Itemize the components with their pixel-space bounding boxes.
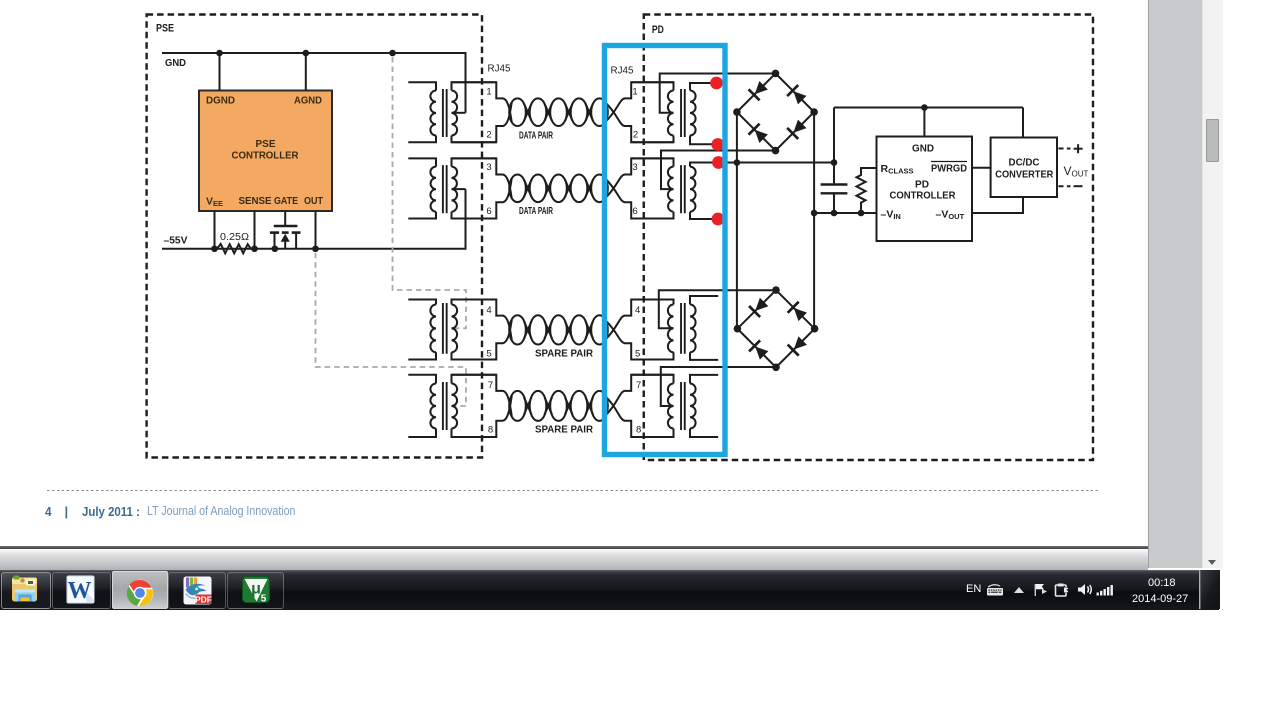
- svg-text:CONVERTER: CONVERTER: [995, 169, 1053, 181]
- bridge corner junctions: [734, 286, 819, 371]
- window bottom silver band: [0, 549, 1148, 570]
- wire BR1 left corner down to BR2 left corner: [736, 112, 738, 329]
- GND rail wire: [162, 53, 466, 113]
- T2 center tap stub: [452, 188, 466, 190]
- power/plug icon: [1054, 583, 1070, 597]
- junction VEE/rail: [211, 245, 218, 252]
- AGND pin wire: [305, 53, 307, 91]
- VEE pin wire: [214, 211, 216, 249]
- transformer T2 (PSE side, pins 3/6): [408, 158, 496, 218]
- svg-text:SENSE: SENSE: [239, 195, 272, 207]
- RJ45 jack PD side pins 1/2: [625, 82, 674, 142]
- diode bridge BR1: [733, 70, 818, 155]
- class resistor Rclass: [857, 168, 877, 213]
- explorer button: [1, 572, 51, 609]
- T1 center tap stub: [452, 112, 466, 114]
- svg-text:6: 6: [486, 206, 491, 217]
- V- output dashes: [1059, 185, 1071, 187]
- PD controller GND pin wire: [923, 108, 925, 137]
- PSE boundary dashed box: [147, 15, 482, 458]
- system tray: [966, 583, 981, 595]
- junction T6 secondary / bridge left rail: [734, 159, 741, 166]
- junction GND/disconnect: [389, 50, 396, 57]
- power tap node red dot pin2: [711, 138, 724, 151]
- RJ45 jack PD side pins 7/8: [625, 375, 674, 437]
- pdf-xchange button: [168, 572, 226, 609]
- -VIN rail wire: [814, 212, 876, 214]
- capacitor C1: [821, 163, 848, 214]
- power tap node red dot pin6: [712, 213, 725, 226]
- svg-text:5: 5: [635, 349, 640, 360]
- DC/DC top pin wire: [1022, 108, 1024, 138]
- svg-text:2: 2: [633, 130, 638, 141]
- svg-text:GND: GND: [912, 144, 934, 155]
- V+ output dashes: [1059, 148, 1071, 150]
- action flag icon: [1033, 583, 1048, 596]
- PSE controller U1: [199, 91, 332, 212]
- wire junction row y162 to capacitor: [737, 162, 834, 164]
- diode top-right: [788, 302, 809, 323]
- diode top-left: [749, 80, 770, 101]
- MOSFET Q1: [270, 226, 301, 249]
- svg-text:7: 7: [488, 380, 493, 391]
- window bottom dark edge: [0, 546, 1148, 549]
- DGND pin wire: [219, 53, 221, 91]
- junction MOSFET/rail: [272, 245, 279, 252]
- gray disconnect path from OUT to spare pair 7/8 center tap: [316, 253, 467, 406]
- twisted data pair (pins 3/6): [503, 175, 625, 203]
- svg-text:DATA PAIR: DATA PAIR: [519, 130, 554, 141]
- keyboard icon: [986, 584, 1004, 596]
- RJ45 jack PSE side pins 7/8: [452, 375, 504, 437]
- svg-text:PD: PD: [652, 24, 664, 36]
- svg-text:6: 6: [632, 206, 637, 217]
- network signal bars: [1096, 584, 1116, 596]
- plus label: [1074, 148, 1083, 150]
- twisted data pair (pins 1/2): [503, 98, 625, 126]
- GND rail to PD controller / DC-DC top wire: [833, 108, 835, 163]
- svg-text:8: 8: [636, 425, 641, 436]
- RJ45 jack PSE side pins 4/5: [452, 300, 504, 360]
- transformer T1 (PSE side, pins 1/2): [408, 82, 496, 142]
- T5 center tap to bridge BR1 + input: [660, 74, 776, 113]
- svg-text:PWRGD: PWRGD: [931, 163, 967, 175]
- scrollbar thumb: [1206, 119, 1220, 162]
- svg-text:DATA PAIR: DATA PAIR: [519, 206, 554, 217]
- PD controller U2: [877, 137, 973, 242]
- svg-text:PDF: PDF: [195, 594, 212, 604]
- T8 center tap to bridge BR2 bottom input: [661, 367, 776, 406]
- transformer T8 (PD side, pins 7/8): [631, 375, 718, 437]
- svg-text:RJ45: RJ45: [611, 66, 634, 77]
- junction PD controller GND pin: [921, 104, 928, 111]
- transformer T6 (PD side, pins 3/6): [631, 158, 737, 219]
- diode bottom-right: [787, 118, 808, 139]
- transformer T3 (PSE side, pins 4/5): [408, 300, 496, 360]
- scrollbar track: [1202, 0, 1223, 568]
- svg-text:0.25Ω: 0.25Ω: [220, 232, 250, 243]
- diode bottom-left: [749, 340, 770, 361]
- svg-text:5: 5: [486, 349, 491, 360]
- GATE pin wire: [284, 211, 286, 227]
- svg-text:W: W: [68, 578, 92, 604]
- show desktop button: [1199, 570, 1221, 609]
- svg-text:3: 3: [632, 162, 637, 173]
- svg-text:SPARE PAIR: SPARE PAIR: [535, 424, 594, 435]
- svg-text:GND: GND: [165, 58, 186, 69]
- clock: [1148, 577, 1196, 589]
- diode top-right: [787, 85, 808, 106]
- transformer T7 (PD side, pins 4/5): [631, 296, 718, 360]
- bridge corner junctions: [733, 70, 818, 155]
- svg-text:μ: μ: [251, 581, 261, 598]
- svg-text:4: 4: [635, 305, 640, 316]
- PWRGD wire: [972, 167, 991, 169]
- svg-text:1: 1: [486, 86, 491, 97]
- junction OUT/rail: [312, 245, 319, 252]
- RJ45 jack PSE side pins 3/6: [452, 158, 504, 218]
- junction capacitor top lead: [831, 159, 838, 166]
- svg-text:VOUT: VOUT: [1064, 164, 1089, 179]
- minus label: [1074, 185, 1083, 187]
- svg-text:3: 3: [486, 162, 491, 173]
- RJ45 jack PD side pins 3/6: [625, 158, 674, 218]
- RJ45 jack PSE side pins 1/2: [452, 82, 504, 142]
- -VOUT wire to DC/DC: [972, 197, 1023, 213]
- svg-text:7: 7: [636, 380, 641, 391]
- junction capacitor bottom lead: [831, 210, 838, 217]
- sense resistor 0.25ohm: [217, 244, 251, 253]
- wire BR1 right corner down to BR2 right corner: [813, 112, 815, 329]
- diode bridge BR2: [734, 286, 819, 371]
- twisted spare pair (pins 7/8): [503, 391, 625, 421]
- diode bottom-left: [749, 124, 770, 145]
- svg-text:8: 8: [488, 425, 493, 436]
- DC/DC converter U3: [991, 138, 1057, 198]
- junction SENSE/rail: [251, 245, 258, 252]
- SENSE pin wire: [254, 211, 256, 249]
- -55V rail wire: [162, 189, 466, 249]
- svg-text:DC/DC: DC/DC: [1009, 156, 1040, 168]
- svg-text:CONTROLLER: CONTROLLER: [232, 150, 299, 162]
- tray up arrow: [1013, 586, 1025, 594]
- svg-text:1: 1: [632, 86, 637, 97]
- footer dashed separator: [47, 490, 1100, 492]
- diode top-left: [749, 296, 770, 317]
- power tap node red dot pin1: [710, 77, 723, 90]
- svg-text:–55V: –55V: [164, 236, 188, 247]
- blue highlight rectangle: [605, 46, 726, 455]
- RJ45 jack PD side pins 4/5: [625, 300, 674, 360]
- T6 center tap to bridge BR1 - input: [661, 151, 776, 190]
- uVision5 button: [227, 572, 284, 609]
- svg-text:4: 4: [486, 305, 491, 316]
- speaker icon: [1077, 583, 1094, 596]
- svg-text:5: 5: [261, 594, 267, 604]
- svg-text:PSE: PSE: [156, 23, 174, 35]
- footer text: [45, 504, 52, 519]
- junction -VIN rail / right corner rail: [811, 210, 818, 217]
- twisted spare pair (pins 4/5): [503, 315, 625, 344]
- scrollbar down arrow: [1204, 556, 1220, 568]
- transformer T4 (PSE side, pins 7/8): [408, 375, 496, 437]
- taskbar: [0, 570, 1219, 610]
- junction AGND/GND: [303, 50, 310, 57]
- svg-text:AGND: AGND: [294, 95, 322, 107]
- svg-text:CONTROLLER: CONTROLLER: [890, 190, 956, 202]
- svg-text:GATE: GATE: [274, 195, 298, 207]
- svg-text:OUT: OUT: [304, 195, 323, 207]
- junction DGND/GND: [216, 50, 223, 57]
- svg-text:DGND: DGND: [206, 95, 235, 107]
- chrome button (active): [112, 571, 168, 609]
- T7 center tap to bridge BR2 top input: [659, 290, 776, 328]
- svg-text:PSE: PSE: [256, 138, 276, 150]
- svg-text:2: 2: [486, 130, 491, 141]
- junction Rclass bottom lead: [858, 210, 865, 217]
- gray disconnect path from GND to spare pair 4/5 center tap: [393, 57, 467, 328]
- svg-text:SPARE PAIR: SPARE PAIR: [535, 348, 594, 359]
- svg-text:RJ45: RJ45: [488, 64, 511, 75]
- gray viewer background right of page: [1148, 0, 1203, 568]
- power tap node red dot pin3: [712, 156, 725, 169]
- transformer T5 (PD side, pins 1/2): [631, 82, 718, 144]
- word button: [52, 572, 111, 609]
- OUT pin wire: [315, 211, 317, 249]
- PD boundary dashed box: [644, 15, 1093, 461]
- diode bottom-right: [788, 335, 809, 356]
